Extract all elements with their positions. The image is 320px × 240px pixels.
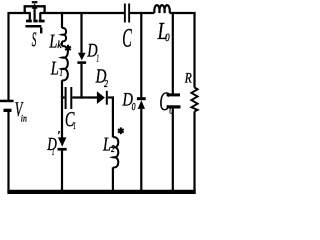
capacitor C1 on mid wire (62, 96, 65, 98)
inductor Lk / L1 branch wire from top (61, 13, 63, 28)
source Vin battery plates (0, 100, 14, 112)
svg-text:L: L (50, 59, 59, 80)
diode D1 (78, 53, 86, 61)
transistor S (MOSFET with body diode) (25, 2, 45, 33)
wire left side (7, 12, 9, 100)
coupling dot asterisk of L1 (65, 45, 71, 52)
battery long plate (0, 100, 14, 103)
wire top left segment (9, 12, 31, 14)
svg-text:1: 1 (97, 53, 100, 64)
svg-text:1: 1 (60, 67, 63, 78)
gate plate (25, 25, 41, 28)
wire top right segment (130, 12, 154, 14)
wire top mid segment (40, 12, 124, 14)
wire top far right segment (170, 12, 196, 14)
wire right side upper (193, 12, 195, 88)
svg-text:2: 2 (111, 144, 115, 155)
capacitor C on top wire (124, 4, 126, 23)
body diode loop (25, 6, 45, 13)
wire L1 bottom to node (61, 80, 63, 98)
wire C1 to D2 (72, 96, 97, 98)
svg-text:R: R (184, 70, 192, 86)
svg-text:L: L (49, 31, 58, 52)
wire neck between Lk and L1 (61, 41, 63, 46)
gate stub (40, 28, 42, 34)
diode D2 (97, 91, 105, 104)
body lead (33, 7, 35, 20)
diode D1' branch below node (61, 98, 63, 138)
inductor L0 on top wire (3 arches) (154, 5, 169, 13)
svg-text:in: in (21, 114, 27, 125)
svg-text:S: S (32, 29, 37, 51)
inductor Lk coil (2 turns) (62, 28, 66, 41)
inductor L2 coil (3 turns) (113, 137, 118, 167)
svg-text:1: 1 (52, 147, 55, 158)
channel bar mid (33, 20, 37, 23)
channel bar right (39, 20, 45, 23)
wire bottom (7, 190, 195, 194)
svg-text:L: L (102, 135, 111, 156)
svg-text:C: C (122, 22, 132, 52)
svg-text:k: k (57, 40, 62, 51)
wire D1 to mid node (80, 64, 82, 99)
diode D0 branch wire from top (140, 13, 142, 97)
wire right side lower (193, 111, 195, 192)
battery short plate (4, 109, 12, 112)
svg-text:0: 0 (169, 106, 174, 117)
svg-text:′: ′ (57, 128, 60, 142)
body diode triangle (32, 3, 38, 9)
diode D1 branch wire from top (80, 13, 82, 53)
svg-text:0: 0 (165, 32, 170, 44)
inductor L2 branch wire down (112, 96, 114, 137)
svg-text:1: 1 (73, 121, 76, 132)
wire left side lower (7, 112, 9, 193)
svg-text:2: 2 (104, 79, 109, 90)
inductor L1 coil (3 turns) (62, 46, 68, 80)
svg-text:0: 0 (132, 102, 136, 113)
svg-text:C: C (159, 86, 169, 116)
wire D0 to bottom (140, 109, 142, 192)
wire D2 to corner (108, 96, 114, 98)
wire D1' to bottom (61, 151, 63, 192)
diode D1' (58, 137, 66, 146)
capacitor C0 branch (172, 13, 174, 94)
resistor R zigzag (191, 88, 197, 112)
body diode cathode bar (32, 1, 38, 3)
channel bar left (26, 20, 32, 23)
drain lead (29, 13, 31, 20)
wire L2 to bottom (112, 167, 114, 192)
diode D0 (pointing up) (137, 97, 146, 100)
source lead (39, 13, 41, 20)
coupling dot asterisk of L2 (118, 127, 124, 134)
